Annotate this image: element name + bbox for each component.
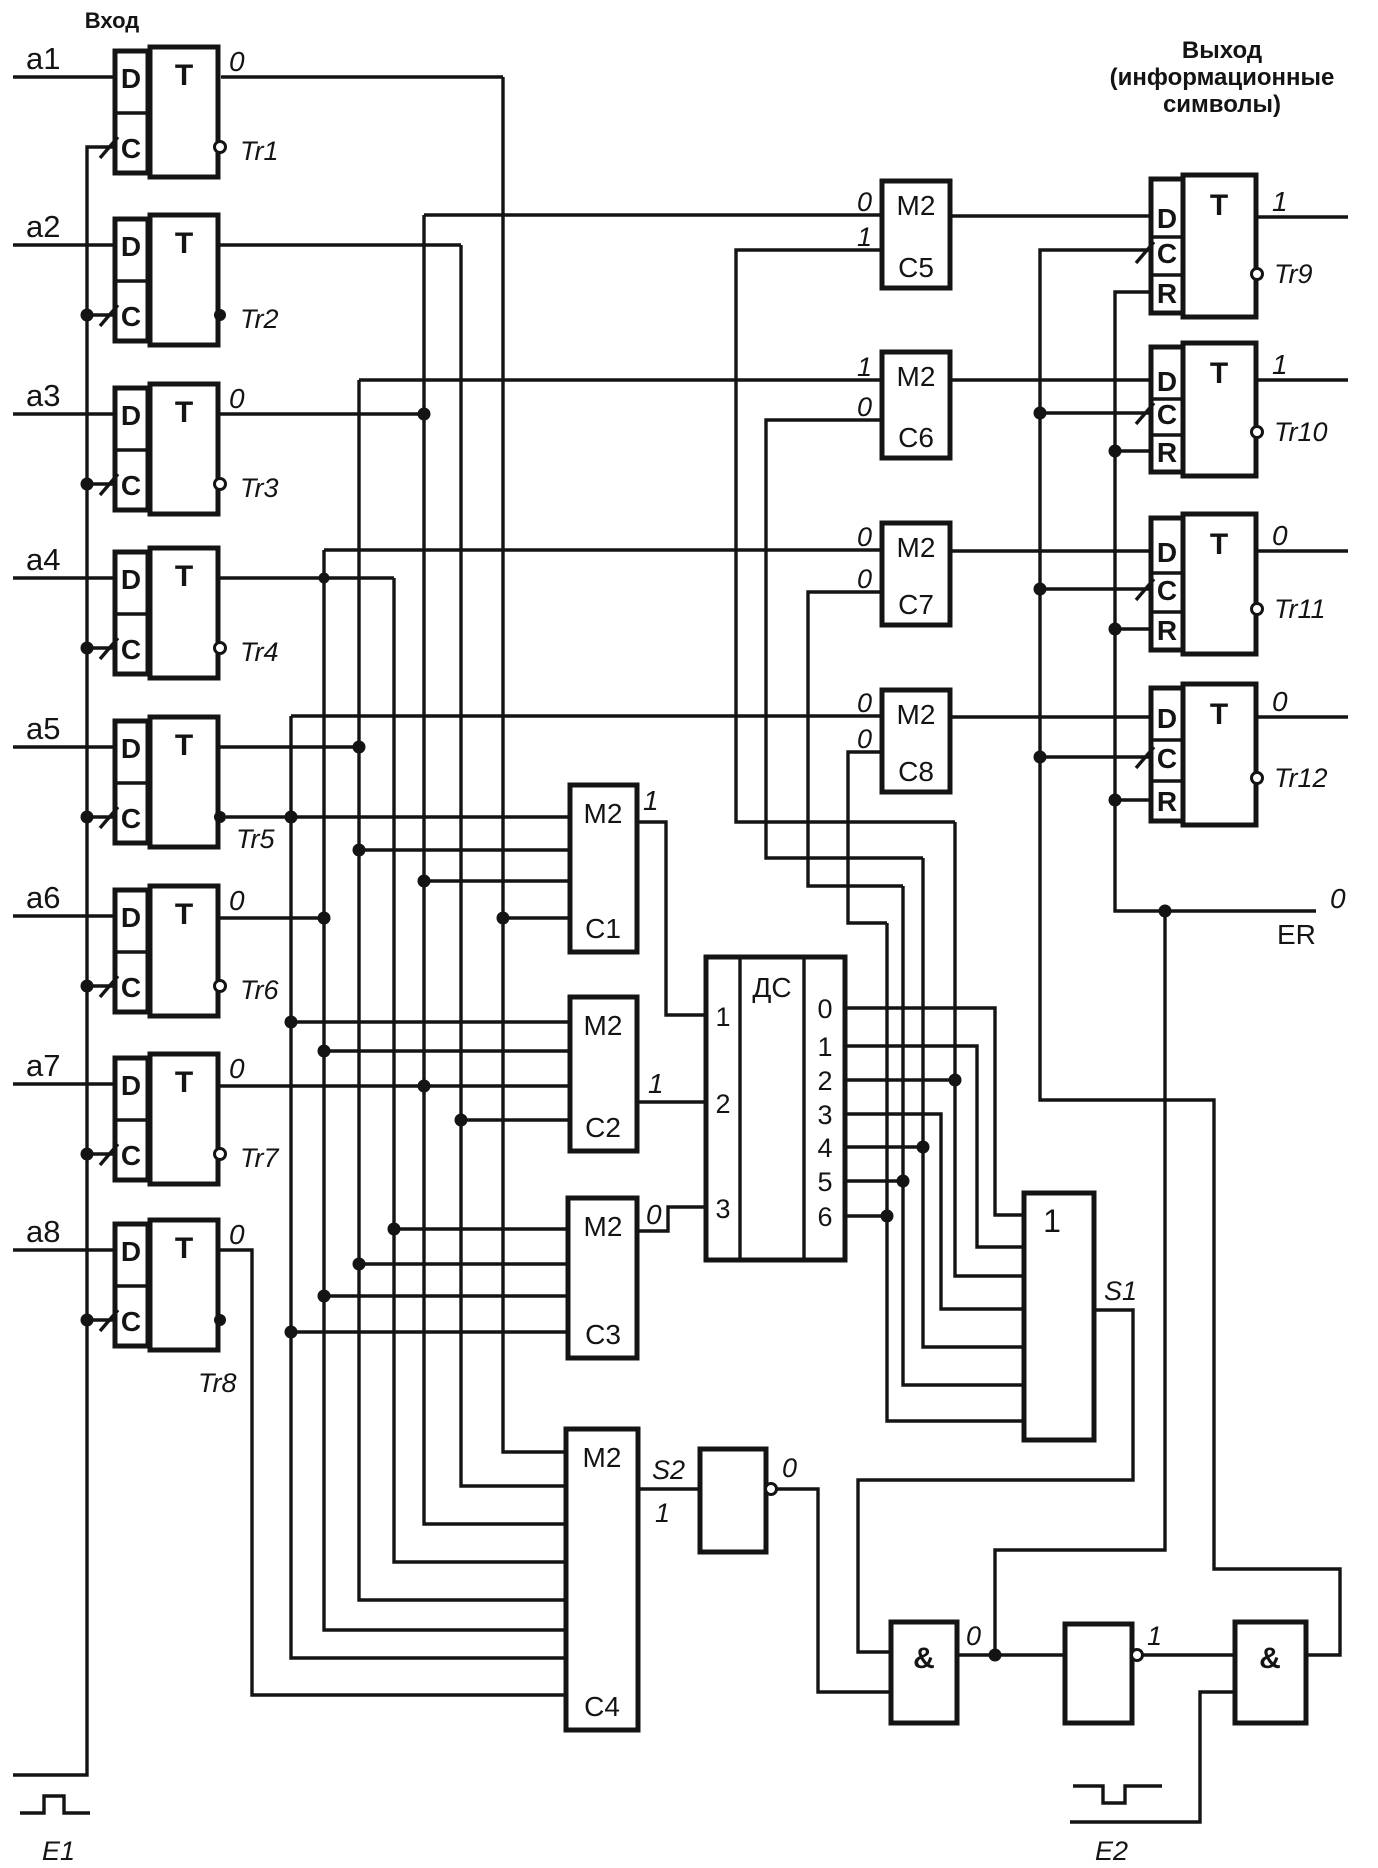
wire C5 output to Tr9 D bbox=[950, 214, 1151, 217]
flip-flop Tr5 (T trigger) bbox=[150, 717, 218, 847]
svg-text:C: C bbox=[121, 133, 141, 164]
clock branch to Tr8 C bbox=[87, 1318, 115, 1321]
inverted output circle Tr3 bbox=[215, 479, 226, 490]
clock branch to Tr7 C bbox=[87, 1152, 115, 1155]
dynamic C input slash Tr2 bbox=[100, 305, 118, 326]
svg-text:C: C bbox=[121, 301, 141, 332]
reset branch to Tr12 R bbox=[1115, 798, 1151, 801]
output wire Tr10 bbox=[1256, 378, 1348, 381]
svg-text:Tr5: Tr5 bbox=[236, 824, 275, 854]
svg-text:2: 2 bbox=[715, 1089, 730, 1119]
wire C3 input 3 from bus x324 bbox=[324, 1294, 568, 1297]
wire C2 input 1 from bus x291 bbox=[291, 1020, 570, 1023]
svg-text:T: T bbox=[1210, 698, 1228, 731]
svg-text:&: & bbox=[913, 1642, 935, 1675]
junction Tr5 inv / bus x291 bbox=[285, 811, 298, 824]
wire C7 output to Tr11 D bbox=[950, 549, 1151, 552]
svg-text:C4: C4 bbox=[584, 1691, 620, 1722]
svg-text:0: 0 bbox=[782, 1453, 797, 1483]
svg-text:1: 1 bbox=[1043, 1203, 1061, 1239]
wire E2 to AND gate 2 lower input bbox=[1070, 1692, 1235, 1822]
svg-text:T: T bbox=[1210, 189, 1228, 222]
flip-flop Tr2 (T trigger) bbox=[150, 215, 218, 345]
junction Tr3 output / bus x424 bbox=[418, 408, 431, 421]
flip-flop Tr6 (T trigger) bbox=[150, 886, 218, 1016]
svg-text:D: D bbox=[121, 63, 141, 94]
input wire a5 bbox=[13, 745, 115, 748]
wire bus x424 from C5 row down to C4 input 3 bbox=[424, 215, 566, 1524]
svg-text:6: 6 bbox=[817, 1202, 832, 1232]
flip-flop Tr10 (output T trigger) bbox=[1183, 343, 1256, 476]
AND gate 1 bbox=[891, 1622, 957, 1723]
wire C1 output to DS input 1 bbox=[637, 822, 706, 1015]
svg-text:T: T bbox=[175, 560, 193, 593]
wire C6 output to Tr10 D bbox=[950, 378, 1151, 381]
svg-text:a7: a7 bbox=[26, 1048, 60, 1083]
svg-text:D: D bbox=[121, 1236, 141, 1267]
svg-text:C: C bbox=[1157, 743, 1177, 774]
svg-text:T: T bbox=[175, 59, 193, 92]
inverted output circle Tr6 bbox=[215, 981, 226, 992]
svg-text:0: 0 bbox=[229, 1219, 245, 1250]
wire C3 input 1 from bus x394 bbox=[394, 1227, 568, 1230]
input wire a7 bbox=[13, 1082, 115, 1085]
svg-text:a8: a8 bbox=[26, 1214, 60, 1249]
junction C1 input 4 / bus x503 bbox=[497, 912, 510, 925]
input wire a4 bbox=[13, 576, 115, 579]
M2 modulo-2 adder C3 bbox=[568, 1198, 637, 1358]
svg-text:0: 0 bbox=[646, 1199, 662, 1230]
svg-text:Tr4: Tr4 bbox=[240, 637, 279, 667]
inverted output circle Tr2 bbox=[214, 309, 226, 321]
svg-text:C8: C8 bbox=[898, 756, 934, 787]
flip-flop Tr4 (T trigger) bbox=[150, 548, 218, 678]
wire Tr7 output to C2 input 3 bbox=[218, 1084, 570, 1087]
input wire a2 bbox=[13, 243, 115, 246]
svg-text:Tr12: Tr12 bbox=[1274, 763, 1328, 793]
wire Tr1 output to bus x503 bbox=[221, 75, 503, 78]
svg-text:0: 0 bbox=[229, 885, 245, 916]
wire AND1 output to inverter 2 bbox=[957, 1653, 1065, 1656]
svg-text:R: R bbox=[1157, 437, 1177, 468]
svg-text:T: T bbox=[175, 898, 193, 931]
svg-text:1: 1 bbox=[643, 785, 659, 816]
svg-text:Выход: Выход bbox=[1182, 37, 1262, 64]
inverted output circle Tr8 bbox=[214, 1314, 226, 1326]
svg-text:&: & bbox=[1259, 1642, 1281, 1675]
wire C3 output to DS input 3 bbox=[637, 1207, 706, 1231]
wire Tr4 output to bus x394 bbox=[218, 576, 394, 579]
wire DS output 3 to OR gate input bbox=[845, 1114, 1024, 1309]
OR gate 1 bbox=[1024, 1193, 1094, 1440]
E2 pulse symbol (negative pulse) bbox=[1073, 1786, 1162, 1803]
wire DS output 5 to OR gate input bbox=[845, 1179, 903, 1182]
inverter 2 output circle bbox=[1132, 1650, 1143, 1661]
svg-text:C: C bbox=[121, 972, 141, 1003]
flip-flop Tr3 (T trigger) bbox=[150, 384, 218, 514]
inverted output circle Tr11 bbox=[1252, 604, 1263, 615]
svg-text:3: 3 bbox=[715, 1194, 730, 1224]
svg-text:C3: C3 bbox=[585, 1319, 621, 1350]
flip-flop Tr12 (output T trigger) bbox=[1183, 684, 1256, 825]
svg-text:T: T bbox=[1210, 357, 1228, 390]
svg-text:Вход: Вход bbox=[85, 8, 139, 33]
inverted output circle Tr10 bbox=[1252, 427, 1263, 438]
svg-text:0: 0 bbox=[857, 392, 872, 422]
svg-text:a3: a3 bbox=[26, 378, 60, 413]
wire bus x359 signal to C6 input 1 bbox=[359, 378, 882, 381]
M2 modulo-2 adder C4 bbox=[566, 1429, 638, 1730]
svg-text:D: D bbox=[1157, 366, 1177, 397]
input wire a8 bbox=[13, 1248, 115, 1251]
flip-flop Tr11 (output T trigger) bbox=[1183, 514, 1256, 654]
clock branch to Tr5 C bbox=[87, 815, 115, 818]
svg-text:0: 0 bbox=[229, 1053, 245, 1084]
wire bus x324 up to C7 row, down to C4 input 6 bbox=[324, 550, 566, 1630]
junction on Tr4 output line at bus x324 bbox=[319, 573, 330, 584]
svg-text:ДС: ДС bbox=[752, 972, 791, 1003]
svg-text:1: 1 bbox=[857, 352, 872, 382]
svg-text:R: R bbox=[1157, 278, 1177, 309]
clock branch to Tr11 C bbox=[1040, 587, 1151, 590]
junction Tr6 output / bus x324 bbox=[318, 912, 331, 925]
clock branch to Tr12 C bbox=[1040, 755, 1151, 758]
dynamic C input slash Tr7 bbox=[100, 1144, 118, 1165]
svg-text:C5: C5 bbox=[898, 252, 934, 283]
wire bus x324 signal to C7 input 1 bbox=[324, 548, 882, 551]
svg-text:C: C bbox=[1157, 238, 1177, 269]
wire bus x461 down to C4 input 2 bbox=[461, 245, 566, 1486]
dynamic C input slash Tr10 bbox=[1136, 403, 1154, 424]
svg-text:C: C bbox=[121, 1140, 141, 1171]
svg-text:2: 2 bbox=[817, 1066, 832, 1096]
dynamic C input slash Tr1 bbox=[100, 137, 118, 158]
input wire a1 bbox=[13, 75, 115, 78]
output wire Tr12 bbox=[1256, 715, 1348, 718]
inverted output circle Tr9 bbox=[1252, 269, 1263, 280]
wire C2 output to DS input 2 bbox=[637, 1100, 706, 1103]
inverter after C4 (S2) bbox=[700, 1449, 766, 1552]
inverted output circle Tr1 bbox=[215, 142, 226, 153]
wire DS output 4 to OR gate input bbox=[845, 1145, 923, 1148]
output wire Tr9 bbox=[1256, 215, 1348, 218]
svg-text:0: 0 bbox=[857, 688, 872, 718]
svg-text:C: C bbox=[121, 803, 141, 834]
wire clock net from AND gate 2 output up to Tr9 C bbox=[1040, 250, 1340, 1655]
inverter output circle bbox=[766, 1484, 777, 1495]
E1 pulse symbol bbox=[20, 1796, 90, 1813]
svg-text:Tr9: Tr9 bbox=[1274, 259, 1313, 289]
wire C2 input 2 from bus x324 bbox=[324, 1049, 570, 1052]
wire C4 output S2 to inverter bbox=[638, 1487, 700, 1490]
svg-text:0: 0 bbox=[1330, 883, 1346, 914]
svg-text:D: D bbox=[121, 400, 141, 431]
inverted output circle Tr12 bbox=[1252, 773, 1263, 784]
decoder ДС bbox=[706, 957, 845, 1260]
wire feedback AND1 output to reset net bbox=[995, 911, 1165, 1655]
svg-text:M2: M2 bbox=[584, 1010, 623, 1041]
inverted output circle Tr7 bbox=[215, 1149, 226, 1160]
svg-text:Tr7: Tr7 bbox=[240, 1143, 279, 1173]
flip-flop Tr9 (output T trigger) bbox=[1183, 175, 1256, 317]
svg-text:C: C bbox=[121, 1306, 141, 1337]
wire Tr8 output down to C4 input 8 bbox=[218, 1250, 566, 1695]
svg-text:0: 0 bbox=[966, 1621, 981, 1651]
wire inverter 2 output to AND gate 2 bbox=[1143, 1653, 1235, 1656]
svg-text:M2: M2 bbox=[897, 361, 936, 392]
svg-text:0: 0 bbox=[857, 724, 872, 754]
svg-text:a6: a6 bbox=[26, 880, 60, 915]
wire Tr3 output bbox=[218, 412, 424, 415]
wire bus x503 down to C4 input 1 bbox=[503, 77, 566, 1452]
reset branch to Tr11 R bbox=[1115, 627, 1151, 630]
M2 modulo-2 adder C5 bbox=[882, 181, 950, 288]
svg-text:R: R bbox=[1157, 786, 1177, 817]
svg-text:1: 1 bbox=[1272, 349, 1288, 380]
wire DS out2 branch up to C5 input 2 bbox=[736, 250, 955, 822]
svg-text:1: 1 bbox=[857, 222, 872, 252]
wire DS output 1 to OR gate input bbox=[845, 1046, 1024, 1247]
output wire Tr11 bbox=[1256, 549, 1348, 552]
svg-text:T: T bbox=[175, 396, 193, 429]
svg-text:0: 0 bbox=[857, 522, 872, 552]
svg-text:ER: ER bbox=[1277, 919, 1316, 950]
AND gate 2 bbox=[1235, 1622, 1306, 1723]
wire Tr2 output to bus x461 bbox=[218, 243, 461, 246]
svg-text:T: T bbox=[1210, 528, 1228, 561]
svg-text:Tr10: Tr10 bbox=[1274, 417, 1328, 447]
wire bus x291 up to C8 row, down to C4 input 7 bbox=[291, 716, 566, 1658]
wire reset net R vertical with ER output bbox=[1115, 292, 1316, 911]
svg-text:E1: E1 bbox=[42, 1836, 75, 1866]
svg-text:5: 5 bbox=[817, 1167, 832, 1197]
wire DS output 2 to OR gate input bbox=[845, 1078, 955, 1081]
junction Tr5 output / bus x359 bbox=[353, 741, 366, 754]
svg-text:0: 0 bbox=[857, 564, 872, 594]
wire DS output 6 to OR gate input bbox=[845, 1214, 887, 1217]
wire Tr5 inverted output to C1 input 1 bbox=[226, 815, 570, 818]
dynamic C input slash Tr12 bbox=[1136, 747, 1154, 768]
svg-text:T: T bbox=[175, 1066, 193, 1099]
svg-text:1: 1 bbox=[817, 1032, 832, 1062]
dynamic C input slash Tr3 bbox=[100, 474, 118, 495]
svg-text:0: 0 bbox=[1272, 686, 1288, 717]
svg-text:T: T bbox=[175, 227, 193, 260]
svg-text:Tr6: Tr6 bbox=[240, 975, 279, 1005]
svg-text:M2: M2 bbox=[584, 798, 623, 829]
dynamic C input slash Tr11 bbox=[1136, 579, 1154, 600]
svg-text:0: 0 bbox=[229, 383, 245, 414]
svg-text:D: D bbox=[1157, 203, 1177, 234]
flip-flop Tr7 (T trigger) bbox=[150, 1054, 218, 1184]
clock branch to Tr4 C bbox=[87, 646, 115, 649]
wire C1 input 4 from bus x503 bbox=[503, 916, 570, 919]
svg-text:1: 1 bbox=[1272, 186, 1288, 217]
clock branch to Tr10 C bbox=[1040, 411, 1151, 414]
dynamic C input slash Tr6 bbox=[100, 976, 118, 997]
wire C1 input 3 from bus x424 bbox=[424, 879, 570, 882]
wire DS out4 branch up to C6 input 2 bbox=[766, 420, 923, 858]
reset branch to Tr10 R bbox=[1115, 449, 1151, 452]
input wire a3 bbox=[13, 412, 115, 415]
clock wire from E1 to all C inputs bbox=[13, 147, 115, 1775]
svg-text:R: R bbox=[1157, 615, 1177, 646]
svg-text:C7: C7 bbox=[898, 589, 934, 620]
svg-text:0: 0 bbox=[857, 187, 872, 217]
flip-flop Tr8 (T trigger) bbox=[150, 1220, 218, 1350]
svg-text:Tr1: Tr1 bbox=[240, 136, 279, 166]
svg-text:3: 3 bbox=[817, 1100, 832, 1130]
wire inverter output to AND gate 1 lower input bbox=[777, 1489, 891, 1692]
inverter 2 bbox=[1065, 1624, 1132, 1723]
M2 modulo-2 adder C1 bbox=[570, 785, 637, 952]
svg-text:символы): символы) bbox=[1163, 91, 1281, 118]
M2 modulo-2 adder C8 bbox=[882, 690, 950, 792]
wire bus x359 up to C6 row, down to C4 input 5 bbox=[359, 380, 566, 1600]
wire DS out6 branch up to C8 input 2 bbox=[848, 752, 887, 923]
svg-text:C: C bbox=[1157, 399, 1177, 430]
svg-text:D: D bbox=[121, 564, 141, 595]
svg-text:1: 1 bbox=[655, 1498, 670, 1528]
svg-text:M2: M2 bbox=[584, 1211, 623, 1242]
wire Tr5 output bbox=[218, 745, 359, 748]
wire bus x424 signal to C5 input 1 bbox=[424, 213, 882, 216]
svg-text:C1: C1 bbox=[585, 913, 621, 944]
svg-text:Tr11: Tr11 bbox=[1274, 594, 1326, 624]
svg-text:a5: a5 bbox=[26, 711, 60, 746]
svg-text:C6: C6 bbox=[898, 422, 934, 453]
wire bus x291 signal to C8 input 1 bbox=[291, 714, 882, 717]
svg-text:D: D bbox=[121, 1070, 141, 1101]
svg-text:M2: M2 bbox=[897, 190, 936, 221]
wire C8 output to Tr12 D bbox=[950, 715, 1151, 718]
junction ER / feedback from AND1 bbox=[1159, 905, 1172, 918]
wire C1 input 2 from bus x359 bbox=[359, 848, 570, 851]
wire DS output 0 to OR gate input bbox=[845, 1008, 1024, 1215]
svg-text:E2: E2 bbox=[1095, 1836, 1128, 1866]
input wire a6 bbox=[13, 914, 115, 917]
M2 modulo-2 adder C7 bbox=[882, 523, 950, 625]
dynamic C input slash Tr8 bbox=[100, 1310, 118, 1331]
clock branch to Tr3 C bbox=[87, 482, 115, 485]
svg-text:M2: M2 bbox=[897, 699, 936, 730]
dynamic C input slash Tr5 bbox=[100, 807, 118, 828]
svg-text:D: D bbox=[1157, 537, 1177, 568]
svg-text:S1: S1 bbox=[1104, 1276, 1137, 1306]
flip-flop Tr1 (T trigger) bbox=[150, 47, 218, 177]
svg-text:C2: C2 bbox=[585, 1112, 621, 1143]
clock branch to Tr2 C bbox=[87, 313, 115, 316]
svg-text:1: 1 bbox=[648, 1068, 664, 1099]
svg-text:4: 4 bbox=[817, 1133, 832, 1163]
wire C2 input 4 from bus x461 bbox=[461, 1118, 570, 1121]
M2 modulo-2 adder C6 bbox=[882, 352, 950, 458]
svg-text:S2: S2 bbox=[652, 1455, 685, 1485]
svg-text:T: T bbox=[175, 1232, 193, 1265]
wire C3 input 4 from bus x291 bbox=[291, 1330, 568, 1333]
svg-text:a4: a4 bbox=[26, 542, 60, 577]
svg-text:Tr3: Tr3 bbox=[240, 473, 279, 503]
inverted output circle Tr5 bbox=[214, 811, 226, 823]
wire Tr6 output to bus x324 bbox=[218, 916, 324, 919]
svg-text:D: D bbox=[121, 902, 141, 933]
svg-text:C: C bbox=[1157, 575, 1177, 606]
svg-text:C: C bbox=[121, 470, 141, 501]
inverted output circle Tr4 bbox=[215, 643, 226, 654]
junction Tr7 output / bus x424 bbox=[418, 1080, 431, 1093]
svg-text:(информационные: (информационные bbox=[1110, 64, 1335, 91]
svg-text:D: D bbox=[1157, 703, 1177, 734]
svg-text:a2: a2 bbox=[26, 209, 60, 244]
svg-text:1: 1 bbox=[1147, 1621, 1162, 1651]
svg-text:D: D bbox=[121, 231, 141, 262]
M2 modulo-2 adder C2 bbox=[570, 997, 637, 1151]
svg-text:1: 1 bbox=[715, 1002, 730, 1032]
svg-text:M2: M2 bbox=[897, 532, 936, 563]
wire DS out5 branch up to C7 input 2 bbox=[808, 592, 903, 886]
svg-text:0: 0 bbox=[229, 46, 245, 77]
svg-text:M2: M2 bbox=[583, 1442, 622, 1473]
svg-text:0: 0 bbox=[817, 994, 832, 1024]
wire C3 input 2 from bus x359 bbox=[359, 1262, 568, 1265]
svg-text:Tr2: Tr2 bbox=[240, 304, 279, 334]
dynamic C input slash Tr4 bbox=[100, 638, 118, 659]
svg-text:a1: a1 bbox=[26, 41, 60, 76]
wire OR output S1 to AND gate 1 bbox=[858, 1310, 1133, 1652]
svg-text:D: D bbox=[121, 733, 141, 764]
dynamic C input slash Tr9 bbox=[1136, 242, 1154, 263]
svg-text:C: C bbox=[121, 634, 141, 665]
svg-text:Tr8: Tr8 bbox=[198, 1368, 237, 1398]
wire bus x394 down to C4 input 4 bbox=[394, 578, 566, 1562]
clock branch to Tr6 C bbox=[87, 984, 115, 987]
svg-text:T: T bbox=[175, 729, 193, 762]
svg-text:0: 0 bbox=[1272, 520, 1288, 551]
